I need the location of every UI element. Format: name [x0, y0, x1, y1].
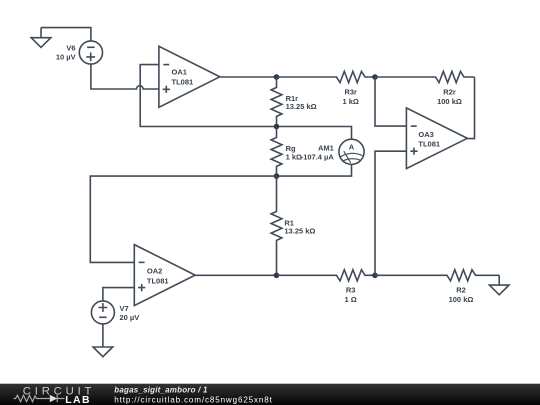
- wire long run to OA2 inverting input: [90, 176, 276, 262]
- resistor R1 13.25 k: [271, 176, 315, 275]
- ammeter AM1: [301, 139, 364, 164]
- svg-text:A: A: [349, 142, 355, 151]
- wire row2 to ammeter top: [277, 127, 352, 140]
- wire ammeter bottom loop: [277, 164, 352, 176]
- resistor R1r 13.25 k: [271, 77, 317, 127]
- node R1r bottom junction: [274, 124, 280, 130]
- svg-text:OA1: OA1: [172, 68, 187, 77]
- svg-text:V7: V7: [120, 304, 129, 313]
- ground G3 right: [489, 275, 509, 295]
- op-amp OA3 TL081: [406, 108, 467, 169]
- svg-text:10 µV: 10 µV: [56, 53, 76, 62]
- svg-text:V6: V6: [66, 44, 75, 53]
- resistor Rg 1 k: [271, 127, 302, 177]
- CircuitLab logo: [14, 386, 96, 405]
- svg-text:13.25 kΩ: 13.25 kΩ: [286, 102, 317, 111]
- svg-text:TL081: TL081: [147, 276, 169, 285]
- resistor R2 100 k: [375, 270, 499, 304]
- wire OA2 output: [195, 274, 276, 276]
- svg-text:100 kΩ: 100 kΩ: [437, 97, 462, 106]
- svg-text:AM1: AM1: [318, 143, 334, 152]
- svg-text:OA3: OA3: [418, 130, 433, 139]
- wire V7 to ground: [102, 324, 104, 347]
- voltage source V6: [56, 41, 103, 64]
- node OA1 output junction: [274, 74, 280, 80]
- wire OA1 inverting input feedback to node row 2: [140, 65, 276, 127]
- svg-text:20 µV: 20 µV: [120, 313, 140, 322]
- node OA2 output junction: [274, 273, 280, 279]
- svg-text:R3r: R3r: [344, 88, 357, 97]
- op-amp OA1 TL081: [159, 46, 220, 107]
- svg-text:TL081: TL081: [418, 139, 440, 148]
- svg-text:http://circuitlab.com/c85nwg62: http://circuitlab.com/c85nwg625xn8t: [114, 395, 272, 404]
- ground G1 top-left: [31, 28, 51, 48]
- svg-text:13.25 kΩ: 13.25 kΩ: [284, 226, 315, 235]
- wire R2r feedback to OA3 output: [467, 77, 474, 139]
- wire OA2 non-inverting input to V7: [103, 288, 134, 301]
- ground G2 below V7: [93, 347, 113, 357]
- resistor R3r 1 k: [277, 71, 376, 106]
- wire OA1 output: [220, 76, 277, 78]
- svg-text:1 kΩ: 1 kΩ: [342, 97, 358, 106]
- resistor R2r 100 k: [375, 71, 475, 106]
- svg-text:LAB: LAB: [65, 395, 91, 405]
- svg-text:100 kΩ: 100 kΩ: [449, 295, 474, 304]
- svg-text:-107.4 µA: -107.4 µA: [301, 153, 335, 162]
- svg-text:R2r: R2r: [443, 88, 456, 97]
- svg-text:R3: R3: [346, 285, 356, 294]
- resistor R3 1 ohm: [277, 270, 376, 304]
- svg-text:1 Ω: 1 Ω: [345, 295, 357, 304]
- wire node to OA3 non-inverting input: [375, 151, 406, 275]
- op-amp OA2 TL081: [134, 245, 195, 306]
- svg-text:OA2: OA2: [147, 266, 162, 275]
- svg-text:1 kΩ: 1 kΩ: [286, 153, 302, 162]
- node R3r right junction: [372, 74, 378, 80]
- wire G1 to V6 top: [41, 28, 91, 41]
- wire node to OA3 inverting input: [375, 77, 406, 126]
- svg-text:R2: R2: [456, 285, 466, 294]
- node R3 right junction: [372, 273, 378, 279]
- svg-text:TL081: TL081: [172, 78, 194, 87]
- svg-text:bagas_sigit_amboro / 1: bagas_sigit_amboro / 1: [114, 385, 208, 394]
- voltage source V7: [91, 301, 139, 324]
- wire V6 bottom to OA1 + input with hop: [91, 64, 159, 89]
- footer bar: [0, 384, 540, 405]
- node Rg bottom junction: [274, 173, 280, 179]
